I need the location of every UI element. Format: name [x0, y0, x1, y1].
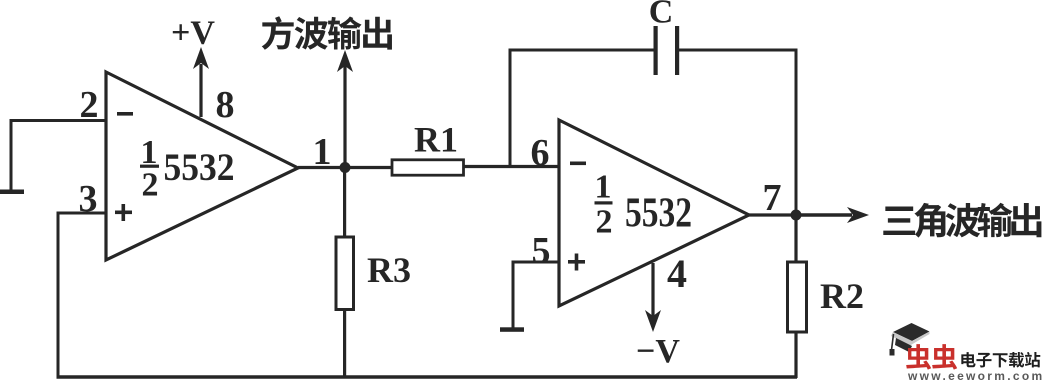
wire capacitor to node 7 — [679, 50, 796, 215]
value label 1/2 5532 (U1) — [140, 134, 235, 204]
svg-text:C: C — [649, 0, 674, 31]
resistor R1 — [392, 160, 464, 175]
square-wave output arrow (node 1) — [337, 50, 353, 167]
wire R3 to bottom rail — [343, 310, 346, 378]
wire R2 to bottom rail — [794, 332, 797, 379]
ground (pin 2) — [0, 190, 24, 195]
power -V arrow (pin 4) — [645, 263, 661, 332]
svg-text:2: 2 — [142, 167, 159, 204]
svg-text:R3: R3 — [367, 250, 411, 290]
capacitor C — [654, 26, 680, 75]
svg-text:6: 6 — [531, 132, 550, 174]
wire pin3 to bottom rail — [58, 213, 106, 377]
svg-text:2: 2 — [596, 204, 613, 241]
ground (pin 5) — [500, 327, 524, 332]
node 7 junction — [791, 210, 802, 221]
svg-text:+V: +V — [171, 15, 215, 52]
net label 三角波输出 (triangle wave output) — [883, 203, 1041, 238]
svg-text:4: 4 — [667, 251, 687, 296]
value label 1/2 5532 (U2) — [595, 169, 693, 241]
svg-text:www.eeworm.com: www.eeworm.com — [907, 369, 1042, 381]
svg-text:5: 5 — [532, 230, 551, 272]
wire pin2 to ground — [11, 121, 106, 192]
wire bottom rail — [57, 375, 798, 379]
svg-text:5532: 5532 — [164, 146, 235, 189]
svg-text:5532: 5532 — [625, 191, 692, 237]
resistor R2 — [788, 262, 807, 332]
wire U2 output to node 7 — [749, 213, 796, 216]
op-amp U2 — [559, 120, 749, 306]
node 1 junction — [340, 162, 351, 173]
wire node1 to R1 — [345, 166, 393, 169]
wire node7 to R2 — [794, 215, 797, 263]
svg-text:1: 1 — [595, 169, 612, 206]
wire node1 to R3 — [343, 168, 346, 239]
wire pin5 to ground — [513, 262, 559, 328]
wire U1 output to node 1 — [298, 166, 345, 169]
net label 方波输出 (square wave output) — [262, 16, 392, 49]
op-amp U1 — [106, 72, 298, 260]
triangle-wave output arrow — [796, 207, 869, 223]
wire R1 to pin 6 — [464, 165, 560, 168]
power +V arrow — [193, 47, 209, 117]
svg-text:−V: −V — [636, 333, 680, 370]
watermark eeworm logo — [890, 323, 1042, 381]
svg-text:8: 8 — [216, 84, 235, 126]
wire pin6 feedback riser — [510, 50, 654, 166]
svg-text:7: 7 — [763, 177, 782, 219]
svg-text:R1: R1 — [414, 120, 458, 160]
svg-text:R2: R2 — [820, 276, 864, 316]
resistor R3 — [336, 237, 354, 310]
